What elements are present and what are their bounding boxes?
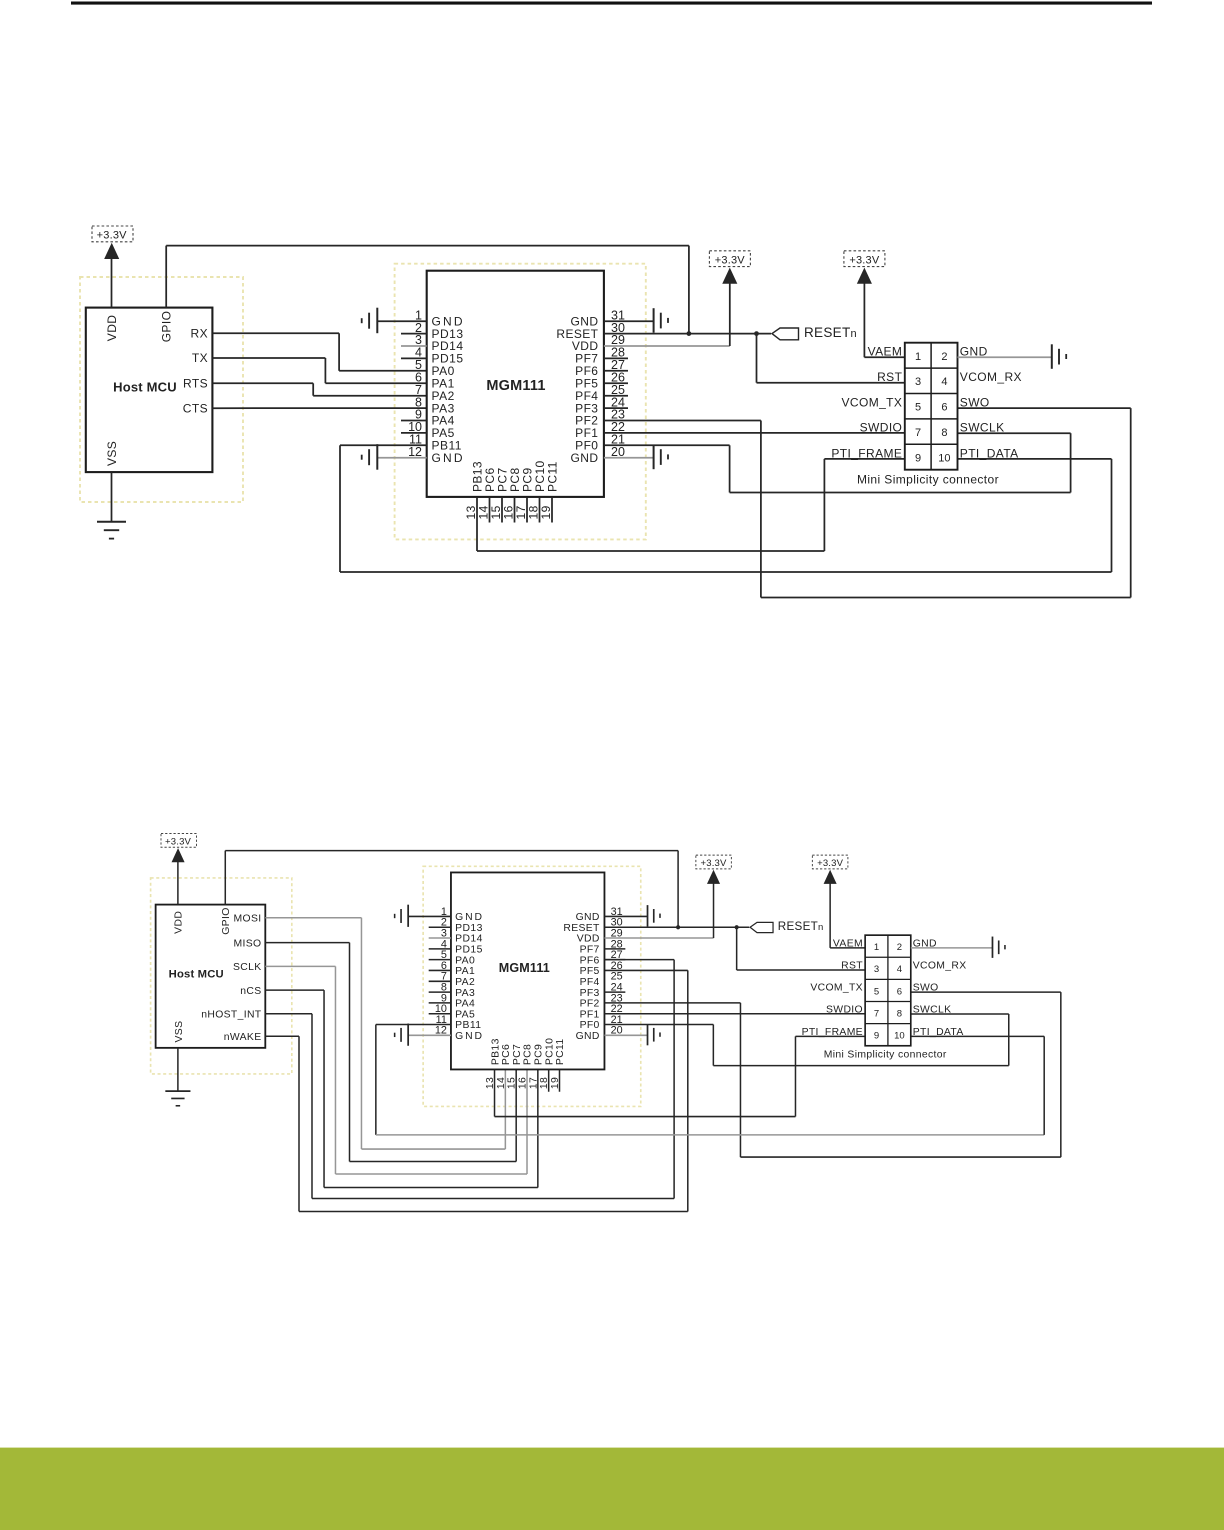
- svg-text:15: 15: [507, 1077, 518, 1089]
- svg-text:+3.3V: +3.3V: [715, 254, 746, 266]
- svg-text:GND: GND: [576, 1031, 600, 1042]
- svg-text:RST: RST: [877, 370, 902, 384]
- svg-text:SWDIO: SWDIO: [860, 421, 903, 435]
- svg-text:2: 2: [897, 942, 902, 953]
- svg-text:GND: GND: [576, 912, 600, 923]
- svg-text:MGM111: MGM111: [499, 961, 550, 975]
- svg-text:PF2: PF2: [580, 999, 600, 1010]
- svg-text:3: 3: [915, 376, 921, 388]
- svg-text:PF3: PF3: [580, 988, 600, 999]
- svg-text:+3.3V: +3.3V: [165, 836, 191, 847]
- svg-text:PF5: PF5: [580, 966, 600, 977]
- svg-text:nWAKE: nWAKE: [224, 1032, 262, 1043]
- svg-text:10: 10: [938, 452, 950, 464]
- svg-text:13: 13: [485, 1077, 496, 1089]
- svg-text:PF0: PF0: [580, 1020, 600, 1031]
- svg-text:19: 19: [539, 505, 553, 519]
- svg-text:GND: GND: [571, 451, 599, 465]
- svg-text:SWO: SWO: [960, 396, 990, 410]
- svg-text:6: 6: [897, 986, 902, 997]
- svg-text:9: 9: [874, 1031, 879, 1042]
- svg-text:GND: GND: [455, 912, 484, 923]
- svg-text:18: 18: [539, 1077, 550, 1089]
- svg-text:GPIO: GPIO: [221, 907, 232, 934]
- svg-text:VDD: VDD: [174, 911, 185, 934]
- svg-text:RX: RX: [191, 327, 208, 341]
- svg-text:PD15: PD15: [455, 944, 483, 955]
- svg-text:9: 9: [915, 452, 921, 464]
- svg-text:PF6: PF6: [580, 955, 600, 966]
- svg-text:VDD: VDD: [105, 315, 119, 342]
- svg-text:MGM111: MGM111: [486, 378, 545, 394]
- svg-text:nCS: nCS: [240, 986, 261, 997]
- svg-text:PTI_FRAME: PTI_FRAME: [831, 446, 902, 460]
- svg-text:PTI_DATA: PTI_DATA: [913, 1027, 964, 1038]
- svg-text:RESET: RESET: [563, 923, 600, 934]
- svg-text:3: 3: [874, 964, 879, 975]
- svg-text:PA0: PA0: [455, 955, 475, 966]
- svg-text:PD13: PD13: [455, 923, 483, 934]
- svg-text:TX: TX: [192, 351, 208, 365]
- svg-text:PC10: PC10: [544, 1038, 555, 1065]
- svg-text:PC11: PC11: [545, 461, 559, 492]
- svg-text:MOSI: MOSI: [234, 913, 262, 924]
- svg-text:7: 7: [915, 427, 921, 439]
- svg-text:PF4: PF4: [580, 977, 600, 988]
- svg-text:PA1: PA1: [455, 966, 475, 977]
- svg-text:MISO: MISO: [234, 938, 262, 949]
- svg-text:GPIO: GPIO: [160, 311, 174, 343]
- svg-text:14: 14: [496, 1077, 507, 1089]
- svg-text:RESETn: RESETn: [804, 325, 857, 340]
- svg-text:7: 7: [874, 1008, 879, 1019]
- svg-text:PA5: PA5: [455, 1009, 475, 1020]
- svg-text:PC9: PC9: [534, 1044, 545, 1065]
- svg-text:1: 1: [915, 351, 921, 363]
- svg-text:8: 8: [897, 1008, 902, 1019]
- svg-text:+3.3V: +3.3V: [701, 858, 727, 869]
- svg-text:Mini Simplicity connector: Mini Simplicity connector: [824, 1050, 947, 1061]
- svg-text:VDD: VDD: [577, 934, 600, 945]
- svg-text:19: 19: [550, 1077, 561, 1089]
- svg-text:SCLK: SCLK: [233, 962, 262, 973]
- svg-text:5: 5: [874, 986, 879, 997]
- svg-text:1: 1: [874, 942, 879, 953]
- svg-text:VAEM: VAEM: [868, 345, 903, 359]
- svg-text:PB13: PB13: [490, 1038, 501, 1065]
- svg-text:PTI_DATA: PTI_DATA: [960, 446, 1019, 460]
- svg-text:RESETn: RESETn: [778, 920, 824, 933]
- svg-text:SWCLK: SWCLK: [913, 1005, 952, 1016]
- svg-text:PF7: PF7: [580, 944, 600, 955]
- svg-text:PC6: PC6: [501, 1044, 512, 1065]
- svg-text:2: 2: [941, 351, 947, 363]
- svg-text:PA2: PA2: [455, 977, 475, 988]
- svg-text:CTS: CTS: [183, 401, 208, 415]
- svg-text:+3.3V: +3.3V: [817, 858, 843, 869]
- svg-text:12: 12: [408, 445, 422, 459]
- svg-text:PTI_FRAME: PTI_FRAME: [802, 1027, 863, 1038]
- svg-text:VCOM_TX: VCOM_TX: [810, 983, 863, 994]
- svg-text:PC7: PC7: [512, 1044, 523, 1065]
- svg-text:4: 4: [897, 964, 903, 975]
- svg-text:VSS: VSS: [105, 441, 119, 466]
- svg-text:VCOM_RX: VCOM_RX: [960, 370, 1022, 384]
- svg-text:+3.3V: +3.3V: [849, 254, 880, 266]
- svg-text:16: 16: [517, 1077, 528, 1089]
- svg-text:PF1: PF1: [580, 1009, 600, 1020]
- svg-text:+3.3V: +3.3V: [97, 230, 128, 242]
- svg-text:VAEM: VAEM: [833, 938, 863, 949]
- svg-text:4: 4: [941, 376, 947, 388]
- svg-text:20: 20: [611, 445, 625, 459]
- svg-text:SWDIO: SWDIO: [826, 1005, 863, 1016]
- svg-text:PC11: PC11: [555, 1038, 566, 1065]
- svg-text:RTS: RTS: [183, 377, 208, 391]
- svg-text:8: 8: [941, 427, 947, 439]
- svg-text:PA4: PA4: [455, 999, 475, 1010]
- svg-text:10: 10: [894, 1031, 905, 1042]
- svg-text:Mini Simplicity connector: Mini Simplicity connector: [857, 472, 999, 486]
- svg-text:GND: GND: [432, 451, 465, 465]
- svg-text:VCOM_TX: VCOM_TX: [841, 396, 902, 410]
- svg-text:VCOM_RX: VCOM_RX: [913, 961, 967, 972]
- svg-text:nHOST_INT: nHOST_INT: [201, 1009, 262, 1020]
- svg-text:SWO: SWO: [913, 983, 939, 994]
- svg-text:GND: GND: [455, 1031, 484, 1042]
- svg-text:PC8: PC8: [523, 1044, 534, 1065]
- svg-text:17: 17: [528, 1077, 539, 1089]
- svg-text:5: 5: [915, 402, 921, 414]
- svg-text:Host MCU: Host MCU: [169, 968, 224, 980]
- svg-text:6: 6: [941, 402, 947, 414]
- svg-text:Host MCU: Host MCU: [113, 379, 177, 394]
- svg-text:VSS: VSS: [174, 1021, 185, 1043]
- svg-text:RST: RST: [841, 961, 863, 972]
- svg-text:PB11: PB11: [455, 1020, 481, 1031]
- svg-text:PA3: PA3: [455, 988, 475, 999]
- svg-text:PD14: PD14: [455, 934, 483, 945]
- svg-text:SWCLK: SWCLK: [960, 421, 1005, 435]
